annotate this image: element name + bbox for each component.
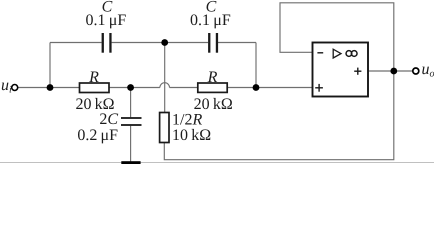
- wire: vertical from mid node down to 2C top plate: [130, 88, 132, 118]
- ground bar under 2C: [121, 161, 140, 164]
- svg-text:0.1 μF: 0.1 μF: [190, 12, 231, 29]
- op-amp minus input sign: [317, 52, 323, 54]
- wire: mid rail hop to R2: [170, 87, 198, 89]
- svg-text:0.2 μF: 0.2 μF: [77, 127, 118, 144]
- wire: hop over vertical wire: [160, 83, 170, 88]
- junction node at op-amp output: [390, 68, 397, 75]
- op-amp U1 box: [313, 43, 369, 97]
- svg-text:R: R: [207, 69, 218, 86]
- wire: top rail C1 to C2: [112, 42, 209, 44]
- wire: mid rail R2 to op-amp + input: [227, 87, 312, 89]
- op-amp plus input sign: [315, 87, 323, 89]
- resistor R1 box: [80, 83, 110, 93]
- junction node B (top rail drop to mid rail): [253, 84, 260, 91]
- capacitor C1 plates: [102, 33, 104, 53]
- output terminal circle uo: [413, 68, 419, 74]
- wire: vertical from top node through hop down to half-R resistor: [164, 43, 166, 113]
- svg-text:0.1 μF: 0.1 μF: [86, 12, 127, 29]
- wire: feedback loop from output node up over to op-amp inverting input: [280, 3, 394, 71]
- wire: vertical from top rail down to mid rail at node B: [255, 43, 257, 88]
- op-amp output plus sign: [354, 70, 361, 72]
- wire: half-R bottom to bottom rail to output node: [164, 71, 393, 160]
- capacitor 2C plates: [121, 117, 142, 119]
- svg-text:10 kΩ: 10 kΩ: [172, 127, 211, 144]
- resistor half-R box: [160, 113, 169, 143]
- wire: vertical from node A up to top rail: [49, 43, 51, 88]
- junction node A (input to R1 / up to C1): [47, 84, 54, 91]
- wire: op-amp output to uo terminal: [368, 70, 413, 72]
- svg-text:R: R: [88, 69, 99, 86]
- wire: top rail to C1: [50, 42, 102, 44]
- op-amp triangle symbol: [333, 49, 341, 58]
- wire: mid rail R1 to hop: [109, 87, 160, 89]
- wire: 2C bottom plate to ground bar: [130, 126, 132, 162]
- wire: top rail C2 to right corner: [218, 42, 256, 44]
- faint bottom rule across figure: [0, 162, 434, 164]
- svg-text:20 kΩ: 20 kΩ: [194, 96, 233, 113]
- capacitor C2 plates: [208, 33, 210, 53]
- wire: input rail from ui terminal to R1: [18, 87, 80, 89]
- input terminal circle ui: [12, 85, 18, 91]
- resistor R2 box: [198, 83, 227, 92]
- op-amp infinity symbol: [346, 51, 352, 57]
- svg-text:2C: 2C: [99, 111, 118, 128]
- svg-text:1/2R: 1/2R: [172, 112, 202, 129]
- junction node on top rail between C1 and C2: [161, 39, 168, 46]
- junction node between R1 and 2C: [127, 84, 134, 91]
